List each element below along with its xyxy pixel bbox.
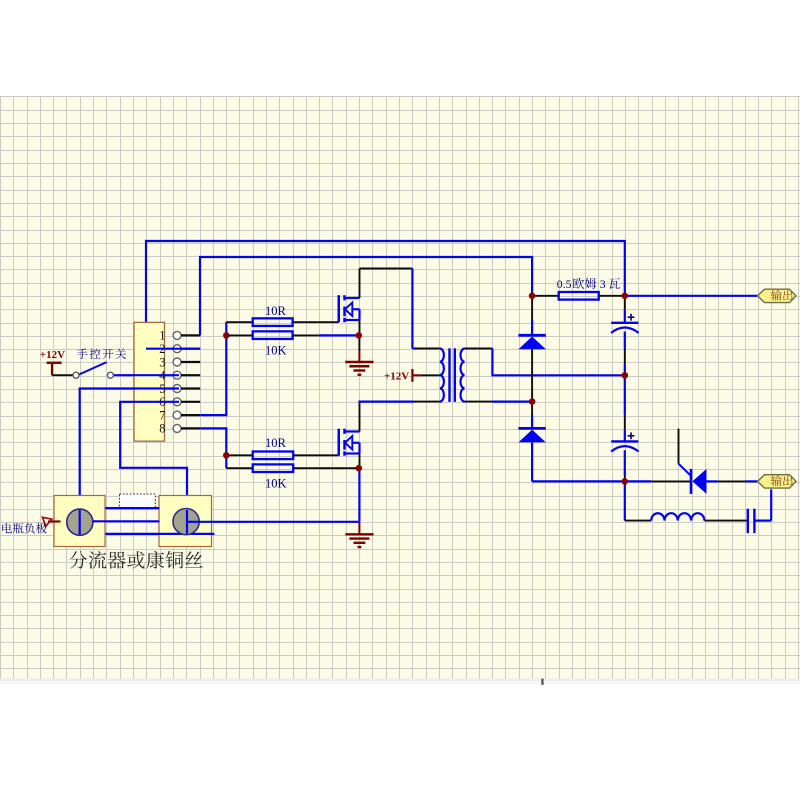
svg-text:8: 8 [159, 422, 165, 436]
svg-text:10K: 10K [265, 343, 287, 357]
svg-text:0.5: 0.5 [557, 277, 572, 291]
svg-text:7: 7 [159, 408, 165, 422]
svg-text:10K: 10K [265, 477, 287, 491]
svg-text:3: 3 [159, 355, 165, 369]
svg-text:+12V: +12V [384, 371, 409, 383]
svg-text:+12V: +12V [40, 349, 65, 361]
svg-text:1: 1 [159, 329, 165, 343]
svg-text:10R: 10R [265, 304, 287, 318]
svg-text:10R: 10R [265, 436, 287, 450]
svg-text:3: 3 [600, 277, 606, 291]
